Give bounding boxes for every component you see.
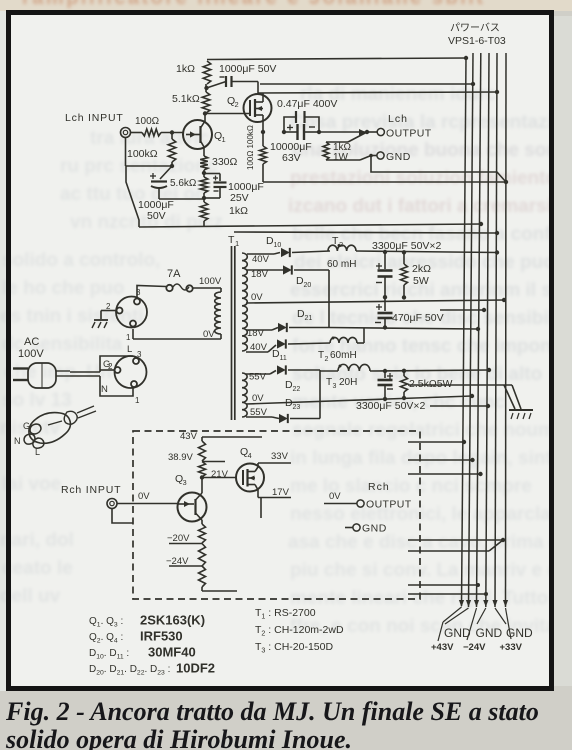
wire stub 406 [430, 404, 490, 408]
svg-text:100Ω 100kΩ: 100Ω 100kΩ [246, 125, 255, 170]
wire pin2 to chassis ground [101, 311, 117, 320]
node bias junction [170, 162, 174, 168]
top heading strip (cut off red title) [0, 0, 572, 11]
node 18V rail bus [476, 327, 480, 331]
Rch input terminal J2 [61, 484, 121, 509]
resistor 2kohm 5W (bleeder upper) [401, 250, 432, 297]
svg-text:−20V: −20V [167, 533, 190, 544]
svg-text:3: 3 [183, 478, 187, 487]
wire tap 55V upper [246, 371, 276, 383]
caption line 2 [6, 725, 566, 750]
svg-text:50V: 50V [147, 210, 166, 222]
svg-text:55V: 55V [250, 407, 268, 418]
AC plug (mains) [13, 363, 70, 388]
caption line 1 [6, 697, 566, 727]
capacitor C 10000uF 63V (output electrolytic) [270, 124, 319, 164]
node lower 0V bus [470, 394, 474, 398]
leader GND a [445, 608, 469, 624]
wire psu ground diag a [512, 385, 521, 409]
capacitor C 3300uF 50Vx2 (upper) [376, 250, 393, 297]
svg-text:11: 11 [280, 355, 287, 362]
label AC 100V [18, 336, 44, 360]
tap -20V [167, 533, 202, 544]
svg-text:Rch INPUT: Rch INPUT [61, 484, 121, 496]
svg-text:1W: 1W [333, 152, 349, 163]
resistor R chain seg1 [199, 441, 206, 461]
wire cable L branch [100, 344, 133, 372]
resistor 330ohm (Q1 source) [200, 156, 237, 170]
wire C2 to chain node [159, 198, 204, 200]
wire gate Q4 [202, 477, 236, 479]
Lch GND terminal [360, 151, 411, 163]
legend D2x [89, 661, 215, 677]
legend D10 D11 [89, 645, 196, 661]
right margin ghost column [554, 16, 572, 686]
node top rail to bus [464, 56, 468, 60]
resistor 5.6kohm (source bias) [170, 177, 208, 193]
svg-text:21: 21 [305, 315, 313, 322]
svg-text:60 mH: 60 mH [327, 259, 356, 270]
diode D20 rectifier [283, 265, 311, 289]
wire psu ground diag b [504, 385, 515, 409]
node chain b [202, 193, 206, 200]
svg-text:GND: GND [476, 626, 503, 640]
svg-text:10DF2: 10DF2 [176, 661, 215, 676]
wire gate rail to bus2 [260, 82, 475, 86]
leader GND b [477, 608, 486, 624]
svg-text:1kΩ: 1kΩ [176, 63, 195, 75]
svg-text:1kΩ: 1kΩ [229, 205, 248, 217]
svg-text:D20​. D21​. D22​. D23​ :: D20​. D21​. D22​. D23​ : [89, 664, 170, 677]
svg-text:1000μF 50V: 1000μF 50V [219, 63, 276, 75]
svg-text:3300μF 50V×2: 3300μF 50V×2 [372, 240, 442, 252]
legend T1 [255, 607, 316, 621]
wire tap 18V upper [247, 269, 283, 280]
node mid rail bus [502, 298, 506, 302]
legend Q devices [89, 613, 205, 629]
capacitor C 1000uF 25V (source bypass) [204, 174, 264, 205]
resistor R chain seg4 [199, 544, 206, 567]
wire cable N branch [100, 376, 133, 396]
wire choke T2b out [357, 328, 364, 344]
transistor Q4 IRF530 MOSFET [236, 446, 264, 498]
svg-text:55V: 55V [249, 372, 267, 383]
wire top rail +43V Lch [207, 58, 466, 60]
wire jog to bottom rail [126, 166, 139, 227]
svg-text:33V: 33V [271, 451, 289, 462]
wire primary 0V return [133, 329, 221, 340]
node upper filter gnd b [402, 295, 406, 299]
wire bias to C2 [160, 166, 172, 179]
svg-text:3300μF 50V×2: 3300μF 50V×2 [356, 400, 426, 412]
node gate tap 21V [200, 469, 229, 480]
resistor 100ohm (series input) [135, 116, 161, 136]
svg-text:GND: GND [506, 626, 533, 640]
diode D10 rectifier [266, 235, 290, 257]
wire rch rail 460 [408, 458, 475, 462]
bus line 3 [477, 53, 481, 607]
wire rail to output [319, 131, 367, 133]
svg-text:100V: 100V [18, 348, 44, 360]
svg-text:+43V: +43V [431, 642, 454, 653]
node upper filter gnd a [383, 295, 387, 299]
transistor Q1 2SK163 JFET [183, 114, 226, 152]
svg-text:40V: 40V [250, 342, 268, 353]
svg-text:2: 2 [235, 100, 239, 109]
wire chain bottom [202, 590, 237, 592]
svg-text:20H: 20H [339, 377, 357, 388]
svg-text:N: N [101, 384, 108, 395]
svg-text:Q2​. Q4​ :: Q2​. Q4​ : [89, 632, 123, 645]
left margin sliver [0, 11, 7, 691]
svg-text:5.6kΩ: 5.6kΩ [170, 178, 197, 189]
capacitor C 1000uF 50V (input bypass) [138, 173, 174, 222]
wire psu ground rail [408, 384, 512, 386]
resistor 1kohm 1W (bleeder) [323, 132, 367, 163]
svg-text:Lch: Lch [388, 113, 408, 125]
wire D11 to choke T2b [288, 343, 330, 344]
node amp rail to bus3 [479, 222, 483, 226]
svg-text:17V: 17V [272, 487, 290, 498]
svg-text:T: T [318, 350, 324, 361]
transistor Q3 2SK163 JFET [175, 473, 207, 522]
svg-text:N: N [14, 436, 21, 446]
wire input shield down [125, 138, 127, 167]
wire to T3 [320, 370, 338, 372]
wire rch rail 474 [408, 472, 483, 476]
node chain 330 top [203, 152, 205, 156]
svg-text:T1​ : RS-2700: T1​ : RS-2700 [255, 607, 316, 621]
Lch output terminal [367, 113, 432, 140]
legend Q2 Q4 [89, 629, 183, 645]
label T1 [228, 234, 239, 248]
node rail2 to bus5 [495, 231, 499, 235]
label GND terminal b [463, 626, 503, 653]
diode D11 rectifier [272, 339, 287, 362]
transformer T1 secondary lower [242, 373, 247, 417]
svg-text:25V: 25V [230, 192, 249, 204]
diode D23 rectifier [279, 397, 300, 423]
ghost show-through text [300, 84, 496, 106]
capacitor C 0.47uF 400V (output film) [277, 98, 337, 134]
svg-text:0V: 0V [138, 491, 150, 502]
wire D22 cathode [288, 369, 320, 371]
wire D10 to choke [292, 251, 330, 253]
svg-text:T: T [326, 377, 332, 388]
svg-text:OUTPUT: OUTPUT [366, 499, 412, 511]
svg-text:100Ω: 100Ω [135, 116, 160, 127]
svg-text:5W: 5W [413, 275, 429, 287]
svg-text:VPS1-6-T03: VPS1-6-T03 [448, 35, 506, 47]
svg-text:IRF530: IRF530 [140, 629, 183, 644]
node drain rail to bus [495, 90, 499, 94]
wire Rch input [117, 491, 178, 504]
svg-text:100kΩ: 100kΩ [127, 148, 158, 160]
resistor R chain seg2 [199, 462, 206, 478]
leader +33V [506, 608, 512, 639]
wire amp bottom rail [139, 224, 481, 227]
bus line 2 [469, 53, 474, 607]
choke T2 60mH (upper) [327, 235, 356, 270]
diode D22 rectifier [277, 365, 300, 393]
svg-text:パワーバス: パワーバス [450, 22, 500, 34]
bus line 1 (+43V) [462, 58, 467, 606]
bus end arrows [459, 600, 508, 607]
svg-text:G: G [23, 421, 30, 431]
Rch GND terminal [345, 523, 387, 535]
transformer T1 primary winding [215, 288, 221, 339]
capacitor C 1000uF 50V (rail decoupling) [207, 63, 277, 88]
fuse F1 7A [166, 268, 192, 292]
svg-text:20: 20 [304, 282, 312, 289]
svg-text:GND: GND [444, 626, 471, 640]
svg-text:Rch: Rch [368, 481, 390, 493]
svg-text:3: 3 [136, 288, 141, 297]
wire input to R 100ohm [131, 132, 143, 134]
wire tap 40V upper [247, 253, 280, 266]
Rch dashed enclosure [133, 431, 420, 599]
wire Q4 drain 33V [258, 451, 291, 463]
resistor 100kohm (gate bias) [127, 133, 176, 163]
svg-text:L: L [127, 344, 132, 355]
legend T2 [255, 624, 344, 638]
svg-text:60mH: 60mH [330, 350, 357, 361]
tap 38.9V [168, 452, 225, 463]
wire rectifier top rail second [234, 232, 497, 233]
Rch output terminal [357, 481, 412, 511]
node between 1k and 5.1k [204, 84, 208, 92]
wire rch rail 594 [408, 592, 488, 596]
AC inlet connector P2 (chassis) [106, 288, 147, 342]
wire shield to bias node [126, 165, 173, 167]
resistor R chain seg3 [199, 520, 206, 543]
leader GND c [495, 608, 506, 624]
bus line 5 [495, 53, 497, 607]
svg-text:0V: 0V [251, 292, 263, 303]
svg-text:0.47μF 400V: 0.47μF 400V [277, 98, 337, 110]
svg-text:18V: 18V [247, 328, 265, 339]
wire 18V rect rail [329, 328, 478, 330]
label GND terminal c [500, 626, 534, 653]
choke T2 60mH (lower) [318, 337, 357, 364]
label GND terminal a [431, 626, 471, 653]
leader +43V [438, 607, 462, 641]
svg-text:L: L [35, 447, 40, 457]
label power bus japanese [448, 22, 506, 47]
wire Q4 source 17V [258, 487, 291, 518]
label 3300uF bottom [356, 400, 426, 412]
svg-text:2.5kΩ5W: 2.5kΩ5W [409, 378, 453, 390]
AC inlet connector P1 (cable side) [108, 350, 147, 405]
wire stub 310 [440, 308, 486, 312]
wire cable G branch [100, 359, 115, 370]
svg-text:2: 2 [106, 302, 111, 311]
resistor 5.1kohm (Q1 drain load) [172, 92, 210, 113]
wire plug cable [70, 372, 100, 376]
Lch input terminal J1 [65, 112, 131, 138]
svg-text:0V: 0V [252, 393, 264, 404]
wire D20 cathode to join [294, 269, 329, 271]
svg-text:GND: GND [386, 151, 411, 163]
wire tap 40V lower [246, 342, 276, 353]
svg-text:3: 3 [137, 350, 142, 359]
wire choke to rail [356, 251, 497, 253]
svg-text:7A: 7A [167, 268, 181, 280]
resistor R chain seg5 [199, 566, 206, 591]
resistor 1kohm (top decoupling) [176, 61, 211, 84]
svg-text:23: 23 [293, 404, 301, 411]
svg-text:−24V: −24V [463, 642, 486, 653]
wire to gate node [161, 132, 184, 134]
svg-text:T3​ : CH-20-150D: T3​ : CH-20-150D [255, 641, 333, 655]
wire join vertical [328, 270, 330, 328]
svg-text:T2​ : CH-120m-2wD: T2​ : CH-120m-2wD [255, 624, 344, 638]
node Q1 drain [203, 111, 207, 115]
wire D23 cathode [290, 418, 320, 420]
svg-text:4: 4 [248, 451, 252, 460]
capacitor C 3300uF 50Vx2 (lower) [378, 369, 394, 401]
svg-text:Q1​. Q3​ :: Q1​. Q3​ : [89, 616, 123, 629]
svg-text:0V: 0V [203, 329, 215, 340]
leader -24V [467, 608, 477, 640]
node output junction [359, 129, 369, 136]
bus line 6 [505, 53, 508, 607]
svg-text:38.9V: 38.9V [168, 452, 193, 463]
wire tap 0V mid rail [246, 292, 504, 303]
svg-text:43V: 43V [180, 431, 198, 442]
svg-text:40V: 40V [252, 254, 270, 265]
node psu top rail bus [495, 250, 499, 254]
resistor 1kohm (source lower) [200, 198, 248, 227]
node chain a [202, 170, 206, 177]
legend T3 [255, 641, 333, 655]
label 3300uF top [372, 240, 442, 252]
wire rch rail 585 [408, 583, 480, 587]
svg-text:470μF 50V: 470μF 50V [392, 312, 444, 324]
svg-text:D10​. D11​ :: D10​. D11​ : [89, 648, 129, 661]
node gate junction [170, 130, 174, 134]
wire Rch shield [112, 509, 133, 524]
wire rch rail 551 [408, 540, 503, 551]
wire pin3 to fuse [137, 286, 166, 298]
svg-text:30MF40: 30MF40 [148, 645, 196, 660]
wire tap 18V lower [246, 328, 278, 340]
svg-text:3: 3 [333, 383, 337, 390]
choke T3 20H [326, 364, 370, 390]
wire Rch out 0V [324, 491, 357, 504]
svg-text:0V: 0V [329, 491, 341, 502]
svg-text:100V: 100V [199, 276, 222, 287]
svg-text:2: 2 [325, 356, 329, 363]
node T3 rail bus [487, 368, 491, 372]
wire rch rail 540 [408, 538, 505, 542]
svg-text:GND: GND [362, 523, 387, 535]
svg-text:T: T [228, 234, 235, 246]
transformer T1 secondary upper [242, 253, 247, 351]
resistor chain top 43V [180, 431, 262, 442]
svg-text:5.1kΩ: 5.1kΩ [172, 93, 200, 105]
diode D21 rectifier [278, 308, 312, 332]
wire T3 rail [370, 370, 489, 371]
svg-text:63V: 63V [282, 152, 301, 164]
svg-text:1: 1 [126, 333, 131, 342]
spare plug sketch [14, 406, 96, 457]
tap -24V [166, 556, 202, 567]
svg-text:OUTPUT: OUTPUT [386, 128, 432, 140]
bus line 4 [486, 53, 489, 607]
svg-text:330Ω: 330Ω [212, 156, 238, 168]
resistor 100kohm vertical label (source load) [246, 125, 267, 182]
svg-text:AC: AC [24, 336, 39, 348]
wire D22 D23 join [319, 370, 321, 419]
svg-text:1: 1 [135, 396, 140, 405]
wire D21 cathode [289, 327, 329, 329]
wire tap 0V lower [246, 393, 472, 404]
transistor Q2 IRF530 MOSFET [205, 93, 272, 132]
svg-text:18V: 18V [251, 269, 269, 280]
svg-text:10: 10 [274, 242, 282, 249]
capacitor C 470uF 50V [375, 297, 444, 329]
svg-text:+33V: +33V [500, 642, 523, 653]
wire rch rail 442 [408, 440, 466, 444]
svg-text:2SK163(K): 2SK163(K) [140, 613, 205, 628]
wire Q2 drain rail [258, 84, 497, 93]
wire fuse to primary [193, 276, 222, 288]
wire tap 55V lower [246, 407, 279, 419]
chassis ground symbol [92, 320, 108, 328]
transformer T1 core [232, 246, 235, 420]
svg-text:2: 2 [108, 362, 113, 371]
power ground symbol [509, 410, 533, 419]
node Q2 source [261, 130, 265, 134]
svg-text:2kΩ: 2kΩ [412, 263, 431, 275]
svg-text:Lch INPUT: Lch INPUT [65, 112, 124, 124]
wire lower rail Lch [263, 181, 506, 183]
svg-text:22: 22 [293, 386, 301, 393]
wire gnd link to bus [371, 156, 508, 185]
svg-text:1: 1 [222, 135, 226, 144]
resistor 2.5kohm 5W (bleeder lower) [401, 369, 453, 401]
svg-text:21V: 21V [211, 469, 229, 480]
